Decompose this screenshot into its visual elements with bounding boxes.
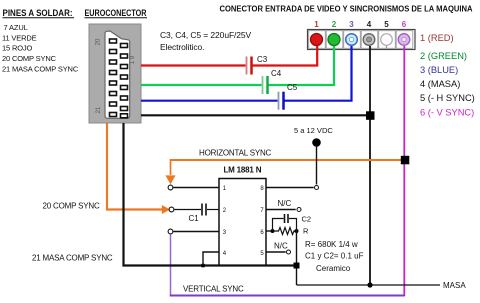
svg-text:C3, C4, C5 = 220uF/25V: C3, C4, C5 = 220uF/25V [160,30,252,40]
connector contact 5 (white) [381,34,393,49]
svg-text:PINES A SOLDAR:: PINES A SOLDAR: [3,8,73,18]
svg-text:5 a 12 VDC: 5 a 12 VDC [294,126,333,135]
svg-text:N/C: N/C [278,199,292,208]
svg-text:HORIZONTAL SYNC: HORIZONTAL SYNC [199,149,272,158]
svg-text:N/C: N/C [274,242,288,251]
supply terminal dot [312,138,321,147]
euroconector pins left column [110,39,117,117]
connector pin numbers 1-6 [314,20,407,29]
wire ground to IC pin4 [203,252,219,266]
svg-text:C2: C2 [302,215,312,224]
IC U1 LM1881N body [219,179,266,266]
svg-text:2 (GREEN): 2 (GREEN) [420,51,467,61]
svg-text:21 MASA COMP SYNC: 21 MASA COMP SYNC [32,254,113,263]
capacitor C4 [263,69,282,94]
wire pin2 to C1 [174,209,201,211]
capacitor C2 branch [273,214,297,231]
wire horizontal sync (orange) [170,160,402,175]
values text R and C [305,240,364,273]
wire red euroconector pin15 to connector pin1 [141,46,317,66]
wire comp sync (orange) from euroconector pin20 [107,123,162,210]
legend text right [420,33,475,118]
resistor R zigzag [275,228,297,235]
svg-text:21: 21 [96,106,102,113]
wire IC pin6 to RC [266,230,273,232]
svg-text:2: 2 [332,20,337,29]
connector contact 4 (gray) [363,34,375,46]
junction square ground [294,263,300,269]
svg-text:C5: C5 [287,83,298,92]
svg-text:3 (BLUE): 3 (BLUE) [420,65,458,75]
connector contact 6 (violet) [398,34,410,46]
svg-text:5: 5 [384,20,389,29]
svg-text:7 AZUL: 7 AZUL [4,23,28,32]
junction pin4 step [201,264,205,268]
svg-text:CONECTOR ENTRADA DE VIDEO Y SI: CONECTOR ENTRADA DE VIDEO Y SINCRONISMOS… [220,5,473,14]
arrow into IC pin1 (orange triangle) [165,175,175,184]
machine connector J2 outer box [308,30,416,50]
wire C1 to IC pin2 [207,209,219,211]
wire R C2 down to ground [296,231,298,285]
wire IC pin8 to supply [266,187,314,189]
svg-text:11 VERDE: 11 VERDE [2,33,37,42]
wire pin3 [173,231,219,233]
IC pin3 terminal circle [168,229,173,234]
euroconector pins right column [121,44,128,118]
wire pin1 [173,187,219,189]
svg-text:21 MASA COMP SYNC: 21 MASA COMP SYNC [2,64,79,73]
capacitor C3 [247,55,268,75]
svg-text:MASA: MASA [443,281,466,290]
junction dot ground/pin4 wire [367,282,372,287]
wire blue euroconector pin7 to connector pin3 [141,46,352,101]
wire IC pin7 NC [266,209,296,211]
wire ground euroconector pin21 [124,123,297,266]
note C3 C4 C5 value [160,30,252,52]
svg-text:1: 1 [314,20,319,29]
svg-text:C3: C3 [257,55,268,64]
svg-text:4: 4 [367,20,372,29]
svg-text:C4: C4 [271,69,282,78]
svg-text:C1 y C2= 0.1 uF: C1 y C2= 0.1 uF [305,252,364,261]
svg-text:3: 3 [349,20,354,29]
svg-text:LM 1881 N: LM 1881 N [224,166,262,175]
svg-text:6 (- V SYNC): 6 (- V SYNC) [420,108,474,118]
arrow comp sync into C1 [162,205,170,214]
svg-text:C1: C1 [189,214,200,223]
svg-text:EUROCONECTOR: EUROCONECTOR [85,8,148,18]
junction dot right of R [295,229,299,233]
machine connector cell boxes [309,31,413,49]
connector contact 2 (green) [328,34,340,46]
svg-text:Ceramico: Ceramico [316,264,351,273]
IC pin numbers [223,186,265,257]
wire green euroconector pin11 to connector pin2 [141,46,334,85]
IC pin2 terminal circle [169,207,174,212]
IC pin1 terminal circle [168,185,173,190]
wire -V sync connector pin6 (magenta) [403,46,405,296]
svg-text:Electrolitico.: Electrolitico. [160,42,204,52]
wire masa euroconector to connector pin4 [141,46,370,285]
junction dot left of R [271,229,275,233]
svg-text:20 COMP SYNC: 20 COMP SYNC [2,54,57,63]
svg-text:1 9: 1 9 [130,55,136,64]
svg-text:20 COMP SYNC: 20 COMP SYNC [43,202,100,211]
svg-text:5 (- H SYNC): 5 (- H SYNC) [420,93,475,103]
IC pin5 terminal circle [287,250,291,254]
euroconector J1 body [89,24,141,123]
IC pin7 terminal circle [297,208,301,212]
svg-text:20: 20 [96,38,102,45]
IC pin8 terminal circle [315,186,319,190]
connector contact 1 (red) [311,34,323,46]
wire vertical sync (purple) pin3 to connector pin6 [170,234,172,294]
wire ground line to MASA [297,284,441,286]
svg-text:VERTICAL SYNC: VERTICAL SYNC [183,285,244,294]
wire IC pin5 NC [266,251,286,253]
svg-text:6: 6 [402,20,407,29]
svg-text:R: R [303,227,309,236]
capacitor C1 [189,204,207,224]
pin list text [2,23,79,73]
junction square masa [366,111,375,120]
svg-text:15 ROJO: 15 ROJO [2,44,33,53]
wire supply to IC pin8 [316,145,318,185]
svg-text:1 (RED): 1 (RED) [420,33,454,43]
capacitor C5 [279,83,298,110]
terminal square horizontal sync [401,156,410,165]
svg-text:4 (MASA): 4 (MASA) [420,79,460,89]
connector contact 3 (blue) [346,34,358,46]
svg-text:R= 680K 1/4 w: R= 680K 1/4 w [305,240,358,249]
